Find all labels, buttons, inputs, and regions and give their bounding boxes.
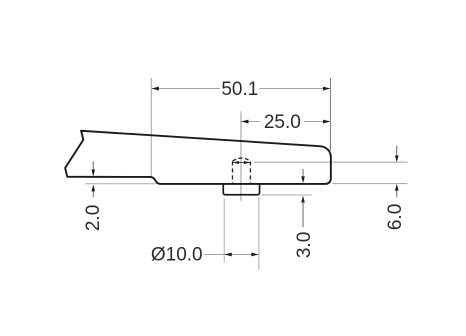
hidden hole top arc (dashed) bbox=[232, 158, 250, 161]
dimension 3.0 lower arrow bbox=[301, 196, 305, 227]
hole diameter double arrow bbox=[232, 161, 250, 164]
dimension line 50.1 bbox=[152, 87, 331, 91]
dimension 6.0 lower arrow bbox=[395, 184, 399, 197]
extension line right end of part bbox=[329, 78, 331, 151]
svg-text:Ø10.0: Ø10.0 bbox=[151, 245, 203, 266]
svg-text:2.0: 2.0 bbox=[83, 205, 104, 231]
dimension line 25.0 bbox=[241, 120, 330, 124]
dimension line diameter 10.0 bbox=[204, 253, 258, 257]
svg-text:25.0: 25.0 bbox=[264, 112, 301, 133]
dimension 6.0 upper arrow bbox=[395, 146, 399, 163]
hidden hole wall right (dashed) bbox=[249, 161, 251, 183]
dimension 2.0 lower arrow bbox=[91, 185, 95, 198]
part outline bbox=[65, 131, 331, 184]
dimension 3.0 upper arrow bbox=[301, 169, 305, 183]
centerline of hole bbox=[240, 111, 242, 201]
extension line left of 50.1 at step bbox=[150, 78, 152, 177]
extension line diameter 10 right bbox=[258, 197, 260, 270]
extension line diameter 10 left bbox=[223, 198, 225, 262]
svg-text:50.1: 50.1 bbox=[221, 79, 258, 100]
svg-text:6.0: 6.0 bbox=[385, 204, 406, 230]
boss under part bbox=[223, 184, 259, 195]
svg-text:3.0: 3.0 bbox=[294, 232, 315, 258]
extension line 6.0 bottom reference bbox=[332, 183, 407, 185]
hidden hole wall left (dashed) bbox=[231, 161, 233, 183]
extension line 2.0 bottom reference bbox=[85, 183, 157, 185]
dimension 2.0 upper arrow bbox=[91, 161, 95, 176]
extension line 3.0 boss bottom reference bbox=[261, 194, 311, 196]
extension line 6.0 hole-depth top reference bbox=[254, 161, 407, 163]
